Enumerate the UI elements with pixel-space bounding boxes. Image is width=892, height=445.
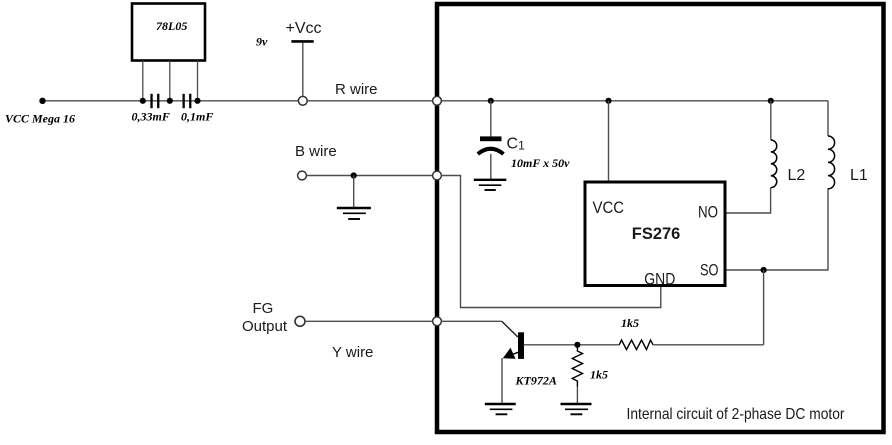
svg-text:FG: FG [253, 300, 274, 317]
wire: resistor to SO junction [653, 344, 764, 346]
capacitor 0,33mF [132, 94, 170, 124]
node: C1 top dot [488, 98, 494, 104]
svg-text:0,33mF: 0,33mF [132, 110, 170, 124]
motor enclosure box [437, 4, 884, 432]
ground C1 [474, 180, 507, 190]
svg-text:VCC Mega 16: VCC Mega 16 [5, 112, 75, 126]
node: SO junction dot [761, 267, 767, 273]
wire: L2 top lead [770, 101, 772, 140]
terminal: B wire left circle [298, 171, 307, 180]
svg-text:1k5: 1k5 [590, 368, 608, 382]
svg-text:C1: C1 [507, 136, 526, 153]
wire: C1 bottom lead [490, 154, 492, 179]
wire: 78L05 pin 3 [197, 61, 199, 101]
wire: 78L05 pin 1 [142, 61, 144, 101]
terminal: Y wire box entry circle [433, 317, 442, 326]
power +Vcc [286, 20, 322, 97]
svg-text:Internal circuit of 2-phase DC: Internal circuit of 2-phase DC motor [627, 406, 846, 423]
wire: B wire [307, 175, 438, 177]
svg-text:R wire: R wire [335, 81, 378, 98]
node: L2 top dot [768, 98, 774, 104]
wire: emitter down [501, 358, 503, 403]
wire: B to GND loop [441, 176, 661, 308]
node: VCC pin dot [605, 98, 611, 104]
svg-text:VCC: VCC [593, 198, 625, 217]
wire: NO pin to L2 [727, 188, 771, 214]
terminal: R wire box entry circle [433, 96, 442, 105]
wire: Y wire [305, 320, 437, 322]
svg-text:10mF x 50v: 10mF x 50v [511, 156, 570, 170]
svg-text:KT972A: KT972A [515, 374, 557, 388]
wire: VCC pin [608, 101, 610, 181]
wire: B ground stem [353, 176, 355, 208]
svg-text:L1: L1 [850, 167, 868, 184]
wire: Y wire to transistor base [441, 320, 502, 322]
wire: R rail inside box to L1 [437, 100, 828, 102]
regulator 78L05 [132, 4, 205, 61]
svg-text:9v: 9v [256, 35, 268, 49]
svg-text:Output: Output [242, 318, 288, 335]
transistor Q1 KT972A [503, 332, 557, 387]
resistor R2 1k5 vertical [572, 345, 608, 387]
terminal: FG output circle [295, 316, 305, 326]
svg-text:FS276: FS276 [632, 224, 681, 243]
node: VCC Mega 16 terminal dot [39, 98, 45, 104]
wire: main R rail from VCC Mega 16 to +Vcc node [42, 100, 303, 102]
svg-text:0,1mF: 0,1mF [181, 110, 213, 124]
wire: 78L05 pin 2 [169, 61, 171, 101]
ground R2 [561, 404, 592, 414]
svg-text:B wire: B wire [295, 143, 337, 160]
capacitor C1 [478, 136, 570, 171]
node: cap2 right dot [194, 98, 200, 104]
node: cap middle dot [167, 98, 173, 104]
node: collector junction dot [574, 342, 580, 348]
svg-text:1k5: 1k5 [621, 316, 639, 330]
svg-text:+Vcc: +Vcc [286, 20, 322, 37]
svg-text:Y wire: Y wire [332, 344, 373, 361]
wire: collector rail [524, 344, 620, 346]
inductor L2 [771, 140, 806, 188]
svg-text:NO: NO [698, 203, 718, 222]
svg-text:SO: SO [700, 261, 719, 280]
wire: R rail from +Vcc node to box edge [307, 100, 437, 102]
svg-text:78L05: 78L05 [156, 19, 187, 33]
wire: SO down to resistor rail [763, 270, 765, 345]
wire: SO pin to L1 [727, 189, 829, 271]
node: B wire ground dot [351, 172, 357, 178]
terminal: +Vcc node circle [298, 96, 307, 105]
svg-text:L2: L2 [788, 167, 806, 184]
inductor L1 [828, 136, 868, 189]
wire: C1 top lead [490, 101, 492, 137]
ground B wire [337, 208, 371, 219]
ground emitter [485, 404, 516, 414]
wire: L1 top lead [827, 101, 829, 136]
svg-text:GND: GND [644, 270, 675, 289]
terminal: B wire box entry circle [433, 171, 442, 180]
resistor R1 1k5 horizontal [619, 316, 653, 350]
IC FS276 [585, 182, 725, 289]
node: cap1 left dot [140, 98, 146, 104]
wire: R2 to ground [576, 387, 578, 404]
capacitor 0,1mF [181, 94, 213, 124]
